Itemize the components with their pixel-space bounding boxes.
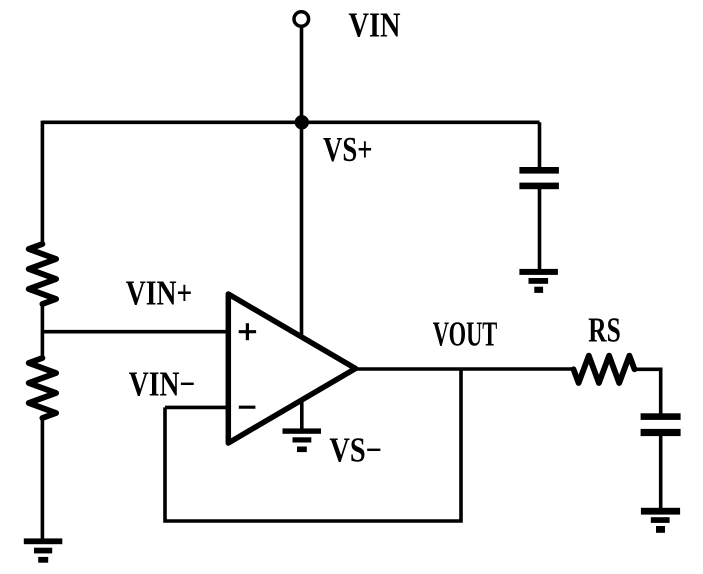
svg-text:VOUT: VOUT (433, 315, 498, 354)
svg-text:VS−: VS− (329, 431, 382, 470)
svg-text:VIN−: VIN− (129, 364, 196, 403)
svg-text:VIN+: VIN+ (126, 273, 193, 312)
svg-text:VIN: VIN (349, 6, 401, 45)
svg-text:VS+: VS+ (323, 130, 373, 169)
svg-text:RS: RS (588, 310, 621, 349)
